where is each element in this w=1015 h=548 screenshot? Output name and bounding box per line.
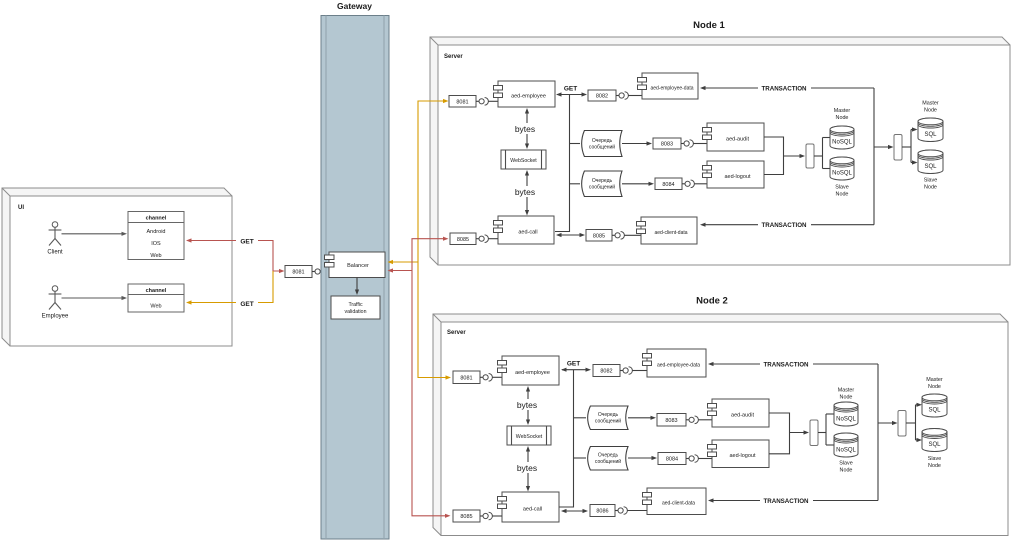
connector ball-socket (8083-aed-audit n1) bbox=[681, 140, 707, 148]
svg-text:Employee: Employee bbox=[42, 314, 69, 320]
svg-text:aed-employee: aed-employee bbox=[511, 93, 546, 99]
svg-text:aed-call: aed-call bbox=[523, 506, 542, 512]
svg-text:Balancer: Balancer bbox=[347, 263, 369, 269]
wire join audit/logout to bar (n2) bbox=[769, 413, 809, 454]
svg-text:8081: 8081 bbox=[460, 375, 472, 381]
wire TRANSACTION top (n1) bbox=[700, 86, 874, 90]
label Node 2 bbox=[696, 296, 728, 307]
svg-text:TRANSACTION: TRANSACTION bbox=[763, 498, 809, 505]
svg-text:8085: 8085 bbox=[460, 514, 472, 520]
svg-text:8084: 8084 bbox=[666, 457, 678, 463]
bar node splitter 1 (n1) bbox=[806, 144, 814, 168]
svg-text:aed-employee-data: aed-employee-data bbox=[650, 85, 693, 91]
label Node 1 bbox=[693, 20, 725, 31]
svg-text:Slave: Slave bbox=[924, 178, 938, 184]
svg-text:GET: GET bbox=[240, 301, 253, 308]
cylinder NoSQL master (n2) bbox=[834, 402, 858, 426]
wire bytes (WebSocket-aed-call n2) bbox=[526, 446, 530, 492]
port 8086 (n2 data) bbox=[590, 505, 615, 517]
svg-text:Server: Server bbox=[444, 54, 463, 60]
svg-text:GET: GET bbox=[567, 360, 580, 367]
svg-text:Очередь: Очередь bbox=[598, 412, 619, 418]
wire aed-employee to 8082 (n2) bbox=[561, 368, 591, 372]
junction wire (n1) bbox=[555, 95, 580, 232]
component aed-employee-data (n2) bbox=[643, 349, 707, 377]
svg-text:channel: channel bbox=[146, 288, 167, 294]
label GET (top) bbox=[236, 235, 258, 246]
wire bar to NoSQL (n1) bbox=[814, 138, 830, 169]
wire queue2 to 8084 (n2) bbox=[628, 456, 657, 460]
svg-text:8081: 8081 bbox=[292, 270, 304, 276]
svg-text:bytes: bytes bbox=[517, 463, 537, 473]
wire Balancer to Traffic validation bbox=[355, 278, 359, 296]
svg-text:8084: 8084 bbox=[662, 182, 674, 188]
svg-text:8082: 8082 bbox=[596, 94, 608, 100]
svg-text:aed-logout: aed-logout bbox=[725, 174, 751, 180]
bar node splitter 2 (n1) bbox=[894, 135, 902, 161]
svg-text:NoSQL: NoSQL bbox=[836, 416, 856, 422]
connector ball-socket (8081-Balancer) bbox=[312, 268, 329, 276]
svg-text:Server: Server bbox=[447, 330, 466, 336]
label Slave Node (SQL n2) bbox=[928, 456, 942, 469]
svg-text:aed-client-data: aed-client-data bbox=[662, 501, 695, 507]
table channel (Android/IOS/Web) bbox=[128, 212, 184, 260]
component aed-call (n1) bbox=[494, 216, 555, 244]
wire aed-employee to 8082 (n1) bbox=[556, 92, 587, 96]
port 8081 (node2) bbox=[453, 371, 480, 384]
svg-text:сообщений: сообщений bbox=[589, 184, 615, 191]
svg-text:Android: Android bbox=[147, 229, 166, 235]
connector ball-socket (8084-aed-logout n1) bbox=[682, 180, 707, 188]
label Master Node (SQL n2) bbox=[926, 377, 943, 390]
svg-text:GET: GET bbox=[564, 85, 577, 92]
label TRANSACTION top (n2) bbox=[760, 359, 813, 369]
svg-text:WebSocket: WebSocket bbox=[516, 434, 543, 440]
svg-text:8082: 8082 bbox=[600, 369, 612, 375]
svg-text:aed-logout: aed-logout bbox=[730, 453, 756, 459]
cylinder SQL master (n1) bbox=[918, 118, 943, 142]
component aed-call (n2) bbox=[498, 492, 560, 522]
component aed-audit (n1) bbox=[703, 123, 765, 151]
wire aed-call to 8085 (n1) bbox=[556, 233, 585, 237]
component aed-employee (n1) bbox=[494, 81, 556, 107]
svg-text:Очередь: Очередь bbox=[598, 453, 619, 459]
svg-text:aed-audit: aed-audit bbox=[731, 412, 754, 418]
svg-text:8085: 8085 bbox=[593, 233, 605, 239]
svg-text:Node: Node bbox=[924, 107, 937, 113]
cylinder SQL slave (n2) bbox=[922, 429, 947, 452]
port 8085 (node2 entry) bbox=[453, 510, 480, 522]
connector ball-socket (8082-aed-employee-data n2) bbox=[620, 367, 647, 375]
wire bar to NoSQL (n2) bbox=[818, 414, 834, 445]
cylinder SQL master (n2) bbox=[922, 394, 947, 417]
wire to SQL bar (n2) bbox=[878, 421, 898, 425]
cylinder NoSQL slave (n1) bbox=[830, 157, 854, 180]
cylinder NoSQL slave (n2) bbox=[834, 433, 858, 457]
port 8084 (n2) bbox=[658, 453, 686, 465]
svg-text:TRANSACTION: TRANSACTION bbox=[761, 86, 807, 93]
svg-text:сообщений: сообщений bbox=[589, 143, 615, 150]
svg-text:validation: validation bbox=[345, 309, 367, 315]
wire Employee to channel bbox=[62, 296, 128, 300]
svg-text:Slave: Slave bbox=[928, 456, 942, 462]
svg-text:8083: 8083 bbox=[661, 142, 673, 148]
bar node splitter 1 (n2) bbox=[810, 420, 818, 446]
port 8081 (gateway) bbox=[285, 266, 312, 278]
svg-text:SQL: SQL bbox=[924, 132, 937, 138]
svg-text:8086: 8086 bbox=[596, 509, 608, 515]
svg-text:сообщений: сообщений bbox=[595, 458, 621, 465]
label bytes bottom (n2) bbox=[515, 462, 539, 473]
svg-text:8081: 8081 bbox=[456, 99, 468, 105]
label Master Node (NoSQL n2) bbox=[838, 388, 855, 401]
svg-text:Traffic: Traffic bbox=[348, 302, 363, 308]
component aed-audit (n2) bbox=[708, 399, 770, 427]
component aed-employee (n2) bbox=[498, 356, 560, 385]
wire GET orange (channel2 to port 8081) bbox=[186, 271, 273, 305]
svg-text:Очередь: Очередь bbox=[592, 138, 613, 144]
svg-text:Node 2: Node 2 bbox=[696, 296, 728, 307]
label Slave Node (NoSQL n1) bbox=[835, 185, 849, 198]
svg-text:NoSQL: NoSQL bbox=[832, 139, 852, 145]
wire TRANSACTION vertical (n1) bbox=[873, 88, 875, 225]
label Slave Node (SQL n1) bbox=[924, 178, 938, 191]
wire bar2 to SQL (n1) bbox=[902, 127, 918, 164]
svg-text:bytes: bytes bbox=[515, 124, 535, 134]
label GET (n2) bbox=[563, 358, 583, 368]
junction wire (n2) bbox=[559, 370, 586, 507]
node Server 2 (3D box) bbox=[433, 314, 1008, 536]
connector ball-socket (8082-aed-employee-data n1) bbox=[616, 92, 642, 100]
svg-text:bytes: bytes bbox=[517, 400, 537, 410]
label GET (n1) bbox=[560, 83, 580, 93]
connector ball-socket (8084-aed-logout n2) bbox=[686, 455, 712, 463]
queue 2 (n2) bbox=[588, 447, 628, 471]
label Gateway bbox=[337, 1, 372, 11]
svg-text:Gateway: Gateway bbox=[337, 1, 372, 11]
label Master Node (NoSQL n1) bbox=[834, 108, 851, 121]
wire TRANSACTION bottom (n2) bbox=[708, 498, 878, 502]
port 8081 (node1) bbox=[449, 96, 476, 108]
svg-text:Master: Master bbox=[922, 101, 939, 107]
svg-text:Master: Master bbox=[834, 108, 851, 114]
label GET (bottom) bbox=[236, 297, 258, 308]
svg-text:TRANSACTION: TRANSACTION bbox=[761, 222, 807, 229]
wire TRANSACTION top (n2) bbox=[708, 362, 878, 366]
label TRANSACTION top (n1) bbox=[758, 83, 811, 93]
port 8084 (n1) bbox=[655, 178, 682, 190]
svg-text:aed-call: aed-call bbox=[518, 229, 537, 235]
svg-text:Web: Web bbox=[150, 303, 161, 309]
queue 1 (n2) bbox=[588, 406, 628, 430]
wire bytes (WebSocket-aed-call n1) bbox=[525, 170, 529, 216]
svg-text:WebSocket: WebSocket bbox=[510, 158, 537, 164]
wire bytes (aed-employee-WebSocket n1) bbox=[525, 108, 529, 149]
label Slave Node (NoSQL n2) bbox=[839, 461, 853, 474]
component aed-logout (n2) bbox=[708, 440, 770, 468]
svg-text:aed-employee: aed-employee bbox=[515, 370, 550, 376]
svg-text:Web: Web bbox=[150, 253, 161, 259]
svg-text:bytes: bytes bbox=[515, 187, 535, 197]
svg-text:IOS: IOS bbox=[151, 241, 161, 247]
port 8082 (n1) bbox=[588, 90, 616, 101]
wire red corridor (Balancer to nodes 8085) bbox=[388, 237, 451, 518]
connector ball-socket (8083-aed-audit n2) bbox=[686, 416, 712, 424]
wire queue1 to 8083 (n2) bbox=[628, 416, 656, 420]
svg-text:SQL: SQL bbox=[924, 164, 937, 170]
svg-text:8085: 8085 bbox=[457, 237, 469, 243]
svg-text:aed-client-data: aed-client-data bbox=[654, 230, 687, 236]
wire Client to channel bbox=[62, 232, 128, 236]
label bytes bottom (n1) bbox=[513, 186, 537, 197]
port 8085 (node1 entry) bbox=[450, 233, 476, 245]
node UI (3D box) bbox=[2, 188, 232, 346]
process WebSocket (n2) bbox=[507, 426, 551, 445]
table channel (Web) bbox=[128, 284, 184, 312]
connector ball-socket (8086-aed-client-data n2) bbox=[615, 507, 647, 515]
svg-text:Node: Node bbox=[840, 467, 853, 473]
svg-text:aed-employee-data: aed-employee-data bbox=[657, 362, 700, 368]
port 8083 (n2) bbox=[657, 414, 686, 427]
svg-text:Node: Node bbox=[928, 384, 941, 390]
connector ball-socket (8085-aed-client-data n1) bbox=[612, 232, 641, 240]
svg-text:сообщений: сообщений bbox=[595, 418, 621, 425]
svg-text:Очередь: Очередь bbox=[592, 178, 613, 184]
port 8083 (n1) bbox=[653, 138, 681, 149]
label TRANSACTION bottom (n2) bbox=[760, 496, 813, 506]
svg-text:TRANSACTION: TRANSACTION bbox=[763, 362, 809, 369]
svg-text:Node: Node bbox=[840, 394, 853, 400]
connector ball-socket (8085-aed-call n1) bbox=[476, 235, 498, 243]
svg-text:Master: Master bbox=[838, 388, 855, 394]
svg-text:Node 1: Node 1 bbox=[693, 20, 725, 31]
component aed-client-data (n2) bbox=[643, 488, 707, 515]
node Server 1 (3D box) bbox=[430, 37, 1010, 265]
bar node splitter 2 (n2) bbox=[898, 411, 906, 437]
actor Client bbox=[47, 222, 63, 256]
component aed-employee-data (n1) bbox=[638, 73, 699, 99]
svg-text:NoSQL: NoSQL bbox=[836, 447, 856, 453]
label bytes top (n2) bbox=[515, 399, 539, 410]
svg-text:channel: channel bbox=[146, 215, 167, 221]
wire aed-call to 8086 (n2) bbox=[561, 509, 588, 513]
gateway process box bbox=[321, 16, 389, 540]
component aed-client-data (n1) bbox=[637, 217, 698, 244]
connector ball-socket (8081-aed-employee n1) bbox=[476, 98, 498, 106]
connector ball-socket (8085-aed-call n2) bbox=[480, 512, 502, 520]
component Balancer bbox=[325, 252, 386, 278]
svg-text:GET: GET bbox=[240, 238, 253, 245]
port 8082 (n2) bbox=[593, 365, 620, 377]
wire queue2 to 8084 (n1) bbox=[622, 182, 654, 186]
svg-text:Slave: Slave bbox=[835, 185, 849, 191]
svg-text:Node: Node bbox=[836, 115, 849, 121]
svg-text:Node: Node bbox=[836, 191, 849, 197]
queue 1 (n1) bbox=[582, 131, 622, 157]
box Traffic validation bbox=[331, 296, 380, 319]
wire orange corridor (Balancer to nodes 8081) bbox=[388, 99, 452, 380]
svg-text:8083: 8083 bbox=[665, 418, 677, 424]
wire TRANSACTION vertical (n2) bbox=[877, 364, 879, 501]
wire join audit/logout to bar (n1) bbox=[764, 137, 805, 175]
port 8085 (n1 data) bbox=[586, 230, 612, 242]
svg-text:Node: Node bbox=[928, 463, 941, 469]
wire TRANSACTION bottom (n1) bbox=[700, 223, 874, 227]
wire GET red (channel1 to port 8081) bbox=[186, 238, 285, 273]
wire to SQL bar (n1) bbox=[874, 145, 894, 149]
label bytes top (n1) bbox=[513, 123, 537, 134]
svg-text:Node: Node bbox=[924, 184, 937, 190]
wire queue1 to 8083 (n1) bbox=[622, 141, 652, 145]
svg-text:SQL: SQL bbox=[928, 442, 941, 448]
svg-text:NoSQL: NoSQL bbox=[832, 170, 852, 176]
label TRANSACTION bottom (n1) bbox=[758, 220, 811, 230]
svg-text:SQL: SQL bbox=[928, 407, 941, 413]
svg-text:Slave: Slave bbox=[839, 461, 853, 467]
component aed-logout (n1) bbox=[703, 161, 765, 188]
svg-text:Client: Client bbox=[47, 250, 63, 256]
cylinder NoSQL master (n1) bbox=[830, 126, 854, 149]
svg-text:UI: UI bbox=[18, 205, 24, 211]
svg-text:Master: Master bbox=[926, 377, 943, 383]
actor Employee bbox=[42, 286, 69, 320]
wire bytes (aed-employee-WebSocket n2) bbox=[526, 386, 530, 425]
svg-text:aed-audit: aed-audit bbox=[726, 136, 749, 142]
process WebSocket (n1) bbox=[501, 150, 546, 169]
cylinder SQL slave (n1) bbox=[918, 150, 943, 174]
connector ball-socket (8081-aed-employee n2) bbox=[480, 374, 502, 382]
label Master Node (SQL n1) bbox=[922, 101, 939, 114]
queue 2 (n1) bbox=[582, 171, 622, 197]
wire bar2 to SQL (n2) bbox=[906, 403, 922, 442]
